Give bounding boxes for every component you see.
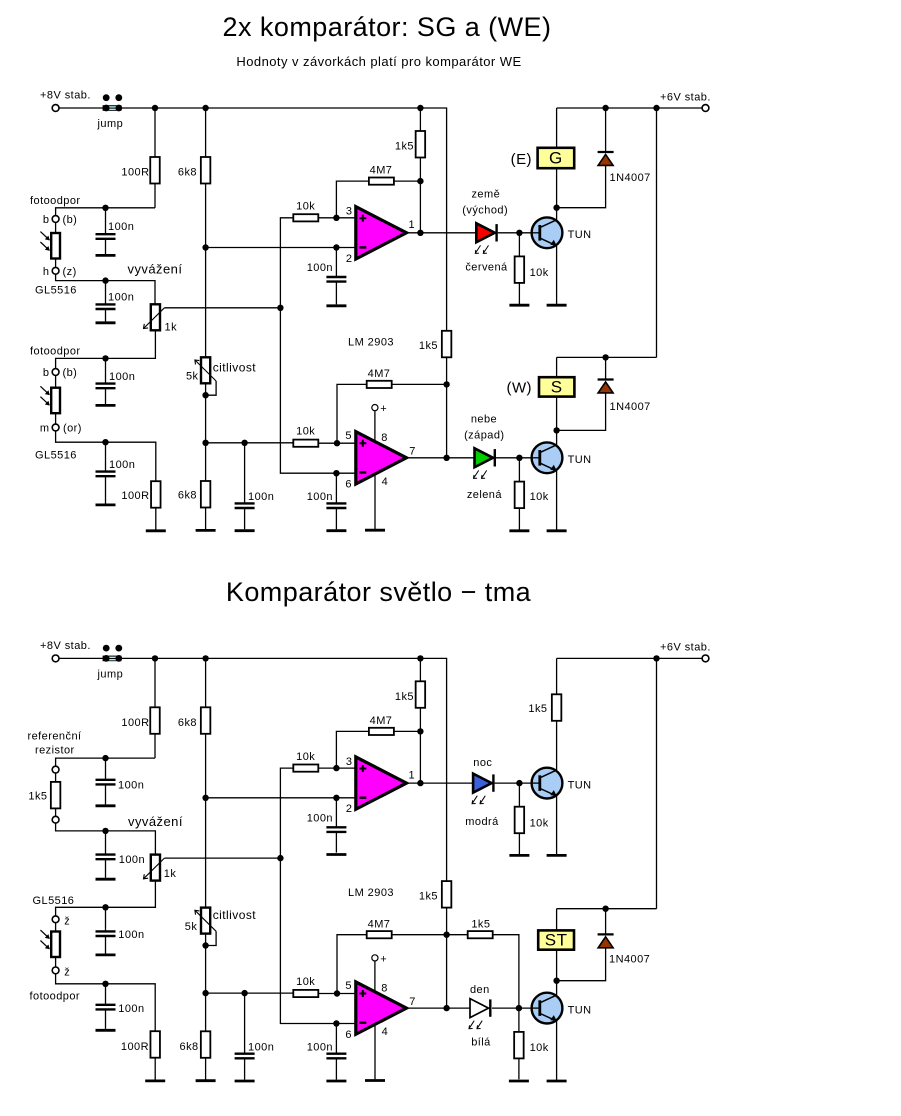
svg-text:ž: ž <box>64 966 70 978</box>
svg-text:100R: 100R <box>121 1041 149 1053</box>
diode 1N4007 (1a) <box>598 152 614 165</box>
wire pin8 lead (1) <box>374 411 376 442</box>
svg-text:1k5: 1k5 <box>395 691 414 703</box>
junction rail@1k5 (1) <box>417 105 423 111</box>
svg-text:(E): (E) <box>511 151 532 168</box>
junction ref-bottom@cap (2) <box>102 828 108 834</box>
junction b2@cap (1) <box>102 355 108 361</box>
svg-text:1k: 1k <box>165 322 178 334</box>
wire pin4 lead (2) <box>374 1026 376 1079</box>
junction h1@cap (1) <box>102 277 108 283</box>
resistor 1k5 (1b) <box>442 331 452 358</box>
wire 10k2 to pin5 (2) <box>318 993 356 995</box>
wire node ref-top (2) <box>56 758 155 766</box>
junction pin2@cap (1) <box>333 244 339 250</box>
junction pin5 node (2) <box>334 990 340 996</box>
potentiometer 1k vyvážení (2) <box>144 855 165 881</box>
svg-text:6k8: 6k8 <box>178 717 197 729</box>
resistor 100R (1a) <box>150 157 160 184</box>
ground gnd cap ldr-top (2) <box>96 954 116 957</box>
wire 1k5 load chain (2) <box>556 658 558 694</box>
svg-text:1: 1 <box>409 769 416 781</box>
wire LED2 to base (2) <box>492 1007 540 1009</box>
wire 10k base1 gnd (1) <box>518 283 520 305</box>
terminal +8V input (2) <box>52 655 59 662</box>
wire ref-a to 1k5 (2) <box>55 773 57 782</box>
wire collector2 (2) <box>556 981 558 996</box>
wire b2 to LDR2 (1) <box>55 375 57 387</box>
ground gnd cap pin2 (1) <box>326 304 346 307</box>
capacitor 100n vyvážení (2) <box>96 831 116 878</box>
svg-text:citlivost: citlivost <box>213 361 257 375</box>
wire pin2 wire (1) <box>206 247 356 249</box>
svg-text:G: G <box>549 149 563 168</box>
svg-text:100R: 100R <box>121 717 149 729</box>
ground gnd pin4 (1) <box>365 529 385 532</box>
svg-text:10k: 10k <box>296 976 315 988</box>
wire 6k8b gnd lead (1) <box>205 508 207 530</box>
wire LED2 to base (1) <box>496 457 540 459</box>
capacitor 100n divider (2) <box>235 993 255 1080</box>
wire 10k base2 gnd (1) <box>518 508 520 530</box>
LED modrá (2) <box>472 774 493 804</box>
wire 1k5b to output2 (2) <box>446 908 448 1009</box>
op-amp LM2903 A (2) <box>356 757 407 809</box>
wire 10k to pin3 (1) <box>318 217 356 219</box>
junction divider node (2) <box>202 990 208 996</box>
junction 5k wiper node (2) <box>202 942 208 948</box>
terminal terminal ref-b (2) <box>52 816 59 823</box>
wire 1k5 top lead (2) <box>419 658 421 681</box>
svg-text:100n: 100n <box>118 929 144 941</box>
wire 4M7b left leg (2) <box>337 935 367 994</box>
svg-text:ST: ST <box>545 931 568 950</box>
svg-text:noc: noc <box>473 757 492 769</box>
svg-text:Hodnoty v závorkách platí pro: Hodnoty v závorkách platí pro komparátor… <box>236 54 521 69</box>
wire 1k5 to output (1) <box>419 158 421 233</box>
svg-text:2: 2 <box>346 803 353 815</box>
transistor TUN (1a) <box>532 217 563 248</box>
svg-text:(západ): (západ) <box>464 430 504 442</box>
svg-text:4M7: 4M7 <box>370 715 393 727</box>
svg-text:rezistor: rezistor <box>35 745 75 757</box>
resistor 6k8 (1b) <box>201 481 211 508</box>
resistor 10k (1d) <box>515 482 525 509</box>
wire ST branch top (2) <box>556 909 558 931</box>
wire +6V rail (1) <box>557 107 703 109</box>
junction collector1 node (1) <box>553 205 559 211</box>
wire diode1 to rail (1) <box>605 108 607 151</box>
wire emitter2 (1) <box>556 471 558 531</box>
junction b1@cap (1) <box>102 205 108 211</box>
junction fb node comp2 (2) <box>443 932 449 938</box>
svg-text:fotoodpor: fotoodpor <box>30 346 81 358</box>
wire 1k5 to output (2) <box>419 708 421 783</box>
svg-text:TUN: TUN <box>568 1004 592 1016</box>
svg-text:1N4007: 1N4007 <box>610 401 651 413</box>
resistor 4M7 (1b) <box>367 381 392 388</box>
ground gnd cap m (1) <box>96 503 116 506</box>
terminal terminal b (1) <box>52 216 59 223</box>
capacitor 100n b1 (1) <box>96 208 116 254</box>
wire diode2 to collector (1) <box>557 393 606 431</box>
wire S branch top (1) <box>556 357 558 377</box>
junction +6V@right drop (2) <box>653 655 659 661</box>
svg-text:4M7: 4M7 <box>368 368 391 380</box>
svg-text:7: 7 <box>409 996 416 1008</box>
wire 100R bottom lead (1) <box>154 184 156 208</box>
wire divider to 10k2 (2) <box>206 992 294 994</box>
ground gnd cap divider (2) <box>235 1080 255 1083</box>
wire pin4 lead (1) <box>374 476 376 529</box>
terminal +6V output (1) <box>702 105 709 112</box>
ground gnd emitter2 (1) <box>547 529 567 532</box>
wire collector1 (1) <box>556 208 558 221</box>
wire node h1 (1) <box>56 274 155 304</box>
resistor 4M7 (2a) <box>369 728 394 735</box>
transistor TUN (2a) <box>532 768 563 799</box>
wire 10k base1 top (1) <box>518 233 520 257</box>
svg-text:(b): (b) <box>63 214 78 226</box>
svg-text:země: země <box>471 189 500 201</box>
svg-text:den: den <box>470 984 490 996</box>
wire 1k wiper (1) <box>164 307 280 309</box>
junction refbus@wiper (1) <box>277 305 283 311</box>
resistor 6k8 (2a) <box>201 707 211 734</box>
svg-text:bílá: bílá <box>471 1037 491 1049</box>
wire 6k8 to 5k pot (2) <box>205 734 207 908</box>
ground gnd cap pin2 (2) <box>326 853 346 856</box>
ground gnd cap divider (1) <box>235 529 255 532</box>
svg-text:(b): (b) <box>63 367 78 379</box>
junction output2 node (2) <box>443 1005 449 1011</box>
junction rail@100R (1) <box>152 105 158 111</box>
ground gnd emitter1 (1) <box>547 304 567 307</box>
junction pin2@cap (2) <box>333 795 339 801</box>
ground gnd 100R2 (2) <box>145 1080 165 1083</box>
capacitor 100n pin2 (2) <box>326 798 346 853</box>
junction base2 node (2) <box>516 1005 522 1011</box>
wire 5k wiper (2) <box>206 931 217 945</box>
wire LED1 to base (1) <box>498 232 540 234</box>
svg-text:h: h <box>43 266 50 278</box>
ground gnd pin4 (2) <box>365 1079 385 1082</box>
wire reference bus (1) <box>280 218 355 473</box>
ground gnd cap ref-top (2) <box>96 804 116 807</box>
wire output1 to LED (2) <box>407 782 474 784</box>
resistor 100R (2a) <box>150 707 160 734</box>
svg-text:jump: jump <box>97 118 124 130</box>
LED bílá (2) <box>469 999 490 1029</box>
terminal V+ supply (1) <box>372 405 378 411</box>
svg-text:1k5: 1k5 <box>528 703 547 715</box>
svg-text:+: + <box>380 954 387 966</box>
wire reference bus (2) <box>280 768 355 1023</box>
svg-text:4: 4 <box>382 1026 389 1038</box>
junction pin5 node (1) <box>334 440 340 446</box>
junction output2 node (1) <box>443 455 449 461</box>
junction +6V@right drop (1) <box>653 105 659 111</box>
junction base1 node (2) <box>516 780 522 786</box>
junction fb node comp2 (1) <box>443 381 449 387</box>
junction base1 node (1) <box>516 230 522 236</box>
wire emitter1 (1) <box>556 246 558 305</box>
jumper jump (1) <box>103 94 123 111</box>
svg-text:LM 2903: LM 2903 <box>348 887 394 899</box>
svg-text:10k: 10k <box>296 201 315 213</box>
junction fb node comp1 (2) <box>417 728 423 734</box>
capacitor 100n divider (1) <box>235 443 255 530</box>
svg-text:GL5516: GL5516 <box>33 895 75 907</box>
svg-text:100n: 100n <box>108 221 134 233</box>
wire 1k5 bypass left (2) <box>447 934 468 936</box>
junction rail@1k5 (2) <box>417 655 423 661</box>
junction pin3 node (1) <box>333 215 339 221</box>
resistor 1k5 (1a) <box>416 131 426 158</box>
svg-text:1k5: 1k5 <box>419 340 438 352</box>
junction rail@6k8 (2) <box>202 655 208 661</box>
svg-text:1k5: 1k5 <box>471 918 490 930</box>
svg-text:10k: 10k <box>296 426 315 438</box>
junction pin6 node (2) <box>333 1020 339 1026</box>
wire 100R top lead (1) <box>154 108 156 157</box>
svg-text:7: 7 <box>409 446 416 458</box>
wire 10k base1 top (2) <box>518 783 520 807</box>
potentiometer 5k citlivost (1) <box>195 357 216 383</box>
svg-text:10k: 10k <box>530 491 549 503</box>
svg-text:100n: 100n <box>108 292 134 304</box>
capacitor 100n b2 (1) <box>96 358 116 404</box>
output box S (1) <box>539 377 574 396</box>
svg-text:10k: 10k <box>530 1042 549 1054</box>
svg-text:100n: 100n <box>109 459 135 471</box>
capacitor 100n ldr-top (2) <box>96 907 116 953</box>
junction rail@6k8 (1) <box>202 105 208 111</box>
resistor 10k (2d) <box>514 1032 524 1059</box>
wire collector2 (1) <box>556 430 558 445</box>
wire 1k bottom to LDR (2) <box>56 881 156 916</box>
wire 1k wiper (2) <box>164 857 280 859</box>
svg-text:5: 5 <box>345 980 352 992</box>
terminal +8V input (1) <box>52 105 59 112</box>
ground gnd cap ldr-bottom (2) <box>96 1029 116 1032</box>
svg-text:+6V stab.: +6V stab. <box>660 642 711 654</box>
svg-text:6: 6 <box>345 479 352 491</box>
svg-text:+8V stab.: +8V stab. <box>40 90 91 102</box>
svg-text:100n: 100n <box>109 371 135 383</box>
svg-text:100n: 100n <box>118 1003 144 1015</box>
junction output1 node (1) <box>417 230 423 236</box>
junction +6V@diode1 (1) <box>602 105 608 111</box>
svg-text:100n: 100n <box>118 779 144 791</box>
op-amp LM2903 B (2) <box>356 982 407 1034</box>
capacitor 100n ref-top (2) <box>96 758 116 804</box>
wire node ref-bottom (2) <box>56 823 156 855</box>
terminal +6V output (2) <box>702 655 709 662</box>
wire right drop (2) <box>656 658 658 908</box>
wire LDR to ž2 (2) <box>55 957 57 967</box>
svg-text:+6V stab.: +6V stab. <box>660 91 711 103</box>
svg-text:3: 3 <box>346 756 353 768</box>
svg-text:modrá: modrá <box>465 816 499 828</box>
wire 10k2 to pin5 (1) <box>318 442 356 444</box>
svg-text:fotoodpor: fotoodpor <box>30 195 81 207</box>
resistor 10k (1c) <box>515 256 525 283</box>
svg-text:100n: 100n <box>248 1041 274 1053</box>
resistor 10k (1a) <box>293 214 318 221</box>
wire +6V to G box (1) <box>556 108 558 148</box>
resistor 6k8 (2b) <box>201 1031 211 1058</box>
terminal terminal b2 (1) <box>52 369 59 376</box>
svg-text:TUN: TUN <box>568 454 592 466</box>
capacitor 100n pin2 (1) <box>326 248 346 305</box>
svg-text:TUN: TUN <box>568 229 592 241</box>
wire 1k5b to output2 (1) <box>446 357 448 458</box>
svg-text:+: + <box>380 403 387 415</box>
resistor 1k5 reference (2) <box>51 782 61 809</box>
wire 4M7 left leg (1) <box>336 181 369 218</box>
wire diode2 top lead (1) <box>605 357 607 379</box>
wire 4M7b left leg (1) <box>337 384 367 443</box>
wire LDR2 to m (1) <box>55 413 57 424</box>
junction 5k wiper node (1) <box>202 392 208 398</box>
wire 6k8 to 5k pot (1) <box>205 184 207 358</box>
svg-text:b: b <box>43 214 50 226</box>
capacitor 100n m (1) <box>96 442 116 503</box>
junction ldr-top@cap (2) <box>102 904 108 910</box>
wire S box to collector (1) <box>556 397 558 431</box>
svg-text:TUN: TUN <box>568 779 592 791</box>
ground gnd emitter1 (2) <box>547 854 567 857</box>
svg-text:10k: 10k <box>296 751 315 763</box>
wire 100R2 gnd lead (1) <box>155 508 157 531</box>
junction divider@cap (1) <box>241 440 247 446</box>
resistor 1k5 bypass (2) <box>468 931 493 938</box>
junction rail@100R (2) <box>152 655 158 661</box>
resistor 100R (1b) <box>151 481 161 508</box>
svg-text:+8V stab.: +8V stab. <box>40 640 91 652</box>
output box ST (2) <box>538 930 574 949</box>
wire LDR1 to h (1) <box>55 259 57 268</box>
svg-text:4: 4 <box>382 476 389 488</box>
junction output1 node (2) <box>417 780 423 786</box>
svg-text:b: b <box>43 367 50 379</box>
wire LED1 to base (2) <box>495 782 540 784</box>
svg-text:100R: 100R <box>121 167 149 179</box>
svg-text:GL5516: GL5516 <box>35 285 77 297</box>
wire right drop (1) <box>656 108 658 357</box>
photoresistor GL5516 (1b) <box>40 386 60 413</box>
svg-text:GL5516: GL5516 <box>35 450 77 462</box>
svg-text:citlivost: citlivost <box>213 908 257 922</box>
ground gnd 100R2 (1) <box>146 529 166 532</box>
capacitor 100n pin6 (1) <box>326 473 346 529</box>
junction base2 node (1) <box>516 455 522 461</box>
junction ref-top@cap (2) <box>102 755 108 761</box>
wire 5k wiper (1) <box>206 381 217 395</box>
diode 1N4007 (2) <box>598 934 614 947</box>
LED červená (1) <box>475 223 496 253</box>
wire pin2 wire (2) <box>206 797 356 799</box>
svg-text:(or): (or) <box>63 423 82 435</box>
transistor TUN (2b) <box>532 993 563 1024</box>
wire +8V rail (1) <box>59 108 447 331</box>
wire node m (1) <box>56 431 156 481</box>
wire divider to 10k2 (1) <box>206 442 294 444</box>
resistor 10k (2b) <box>293 990 318 997</box>
wire 10k to pin3 (2) <box>318 767 356 769</box>
potentiometer 1k vyvážení (1) <box>144 304 165 330</box>
resistor 4M7 (1a) <box>369 178 394 185</box>
junction ST branch@diode (2) <box>602 906 608 912</box>
LED zelená (1) <box>474 448 495 478</box>
terminal terminal h (1) <box>52 267 59 274</box>
svg-text:100n: 100n <box>307 491 333 503</box>
svg-text:1k5: 1k5 <box>28 791 47 803</box>
wire b to LDR1 (1) <box>55 222 57 233</box>
capacitor 100n pin6 (2) <box>326 1024 346 1080</box>
junction inverting node comp1 (2) <box>202 795 208 801</box>
terminal terminal m (1) <box>52 424 59 431</box>
wire ST box to collector (2) <box>556 950 558 981</box>
wire 100R bottom lead (2) <box>154 734 156 758</box>
photoresistor GL5516 (1a) <box>40 232 60 259</box>
junction pin3 node (2) <box>333 765 339 771</box>
svg-text:červená: červená <box>465 262 508 274</box>
wire 1k5 to ref-b (2) <box>55 808 57 816</box>
wire 1k bottom to b2 (1) <box>56 330 156 368</box>
wire 6k8b gnd lead (2) <box>205 1058 207 1080</box>
diode 1N4007 (1b) <box>598 380 614 393</box>
junction refbus@wiper (2) <box>277 855 283 861</box>
wire G box to collector (1) <box>556 168 558 207</box>
svg-text:ž: ž <box>64 915 70 927</box>
resistor 6k8 (1a) <box>201 157 211 184</box>
svg-text:4M7: 4M7 <box>368 918 391 930</box>
svg-text:100R: 100R <box>121 490 149 502</box>
ground gnd cap h1 (1) <box>96 321 116 324</box>
svg-text:1k5: 1k5 <box>395 141 414 153</box>
ground gnd 10k base2 (1) <box>509 529 529 532</box>
junction fb node comp1 (1) <box>417 178 423 184</box>
wire 10k base1 gnd (2) <box>518 833 520 854</box>
wire 5k to 6k8b (2) <box>205 934 207 1032</box>
resistor 4M7 (2b) <box>367 931 392 938</box>
junction S branch@diode (1) <box>602 354 608 360</box>
svg-text:4M7: 4M7 <box>370 165 393 177</box>
wire 4M7b right leg (2) <box>392 934 447 936</box>
svg-text:3: 3 <box>346 206 353 218</box>
svg-text:10k: 10k <box>530 267 549 279</box>
svg-text:nebe: nebe <box>471 414 497 426</box>
svg-text:Komparátor světlo − tma: Komparátor světlo − tma <box>226 577 532 607</box>
ground gnd 6k8b (1) <box>196 529 216 532</box>
wire 100R top lead (2) <box>154 658 156 707</box>
wire 6k8 top lead (1) <box>205 108 207 157</box>
junction m@cap (1) <box>102 439 108 445</box>
terminal V+ supply (2) <box>372 955 378 961</box>
ground gnd cap b1 (1) <box>96 254 116 257</box>
wire collector1 to diode (1) <box>557 166 606 208</box>
wire 10k base2 top (2) <box>518 1008 520 1032</box>
wire output2 to LED (2) <box>407 1007 471 1009</box>
wire ž1 to LDR (2) <box>55 923 57 932</box>
terminal terminal ž2 (2) <box>52 967 59 974</box>
wire 5k to 6k8b (1) <box>205 383 207 481</box>
jumper jump (2) <box>103 645 123 662</box>
svg-text:5k: 5k <box>185 921 198 933</box>
wire ST branch rail (2) <box>557 908 657 910</box>
